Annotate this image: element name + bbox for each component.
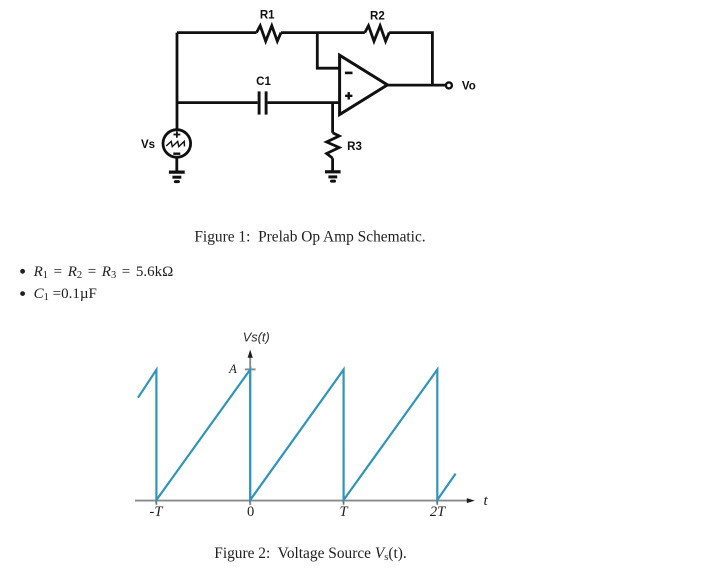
svg-text:R1: R1 xyxy=(260,10,275,22)
tick T xyxy=(343,497,345,505)
tick 2T xyxy=(436,497,438,505)
tick -T xyxy=(155,497,157,505)
terminal Vo xyxy=(446,82,452,88)
svg-text:2T: 2T xyxy=(430,504,446,520)
op-amp U1 xyxy=(340,55,388,114)
source Vs minus mark xyxy=(173,152,180,154)
svg-text:T: T xyxy=(339,504,348,520)
wire C1 net right segment to non-inverting input xyxy=(268,101,340,104)
svg-text:Vs: Vs xyxy=(141,139,155,151)
axis vertical arrowhead xyxy=(248,350,253,358)
wire left vertical from top net down to Vs xyxy=(176,33,179,130)
wire op-amp output to Vo terminal xyxy=(387,84,445,87)
capacitor C1 xyxy=(259,91,266,114)
wire R3 to ground xyxy=(331,158,334,171)
svg-text:-T: -T xyxy=(150,504,164,520)
tick A on vertical axis xyxy=(245,368,256,370)
axis horizontal arrowhead xyxy=(467,498,475,503)
svg-text:Figure 1: Prelab Op Amp Schem: Figure 1: Prelab Op Amp Schematic. xyxy=(194,229,425,246)
wire non-inverting node down to R3 xyxy=(331,103,334,133)
wire top horizontal net from Vs/R1 node to R2 and output branch xyxy=(177,31,257,34)
source Vs sawtooth mark xyxy=(166,141,184,146)
wire from R2 to right corner and down to output xyxy=(389,33,432,86)
resistor R2 xyxy=(365,26,389,42)
ground at Vs xyxy=(169,172,185,182)
svg-text:0: 0 xyxy=(247,504,254,520)
op-amp minus pin mark xyxy=(345,72,353,75)
svg-text:R2: R2 xyxy=(370,10,385,22)
svg-text:Vs(t): Vs(t) xyxy=(243,329,270,344)
svg-text:Vo: Vo xyxy=(462,81,476,93)
svg-text:C1 =0.1µF: C1 =0.1µF xyxy=(34,286,97,303)
resistor R1 xyxy=(257,26,282,42)
wire Vs to ground xyxy=(175,157,178,171)
resistor R3 xyxy=(327,133,340,158)
svg-text:C1: C1 xyxy=(256,76,271,88)
wire between R1 and R2 xyxy=(281,31,365,34)
axis horizontal t xyxy=(135,500,469,502)
svg-text:R3: R3 xyxy=(347,141,362,153)
bullet item 2 marker xyxy=(20,291,25,296)
sawtooth waveform Vs(t) xyxy=(138,370,456,500)
svg-text:t: t xyxy=(484,493,489,509)
svg-text:R1 = R2 = R3 = 5.6kΩ: R1 = R2 = R3 = 5.6kΩ xyxy=(33,264,174,281)
node junction R1-R2 to inverting input xyxy=(317,33,339,69)
source Vs plus mark xyxy=(174,131,181,137)
axis vertical Vs(t) xyxy=(249,357,251,506)
wire C1 net left segment xyxy=(177,101,258,104)
svg-text:Figure 2: Voltage Source Vs(t: Figure 2: Voltage Source Vs(t). xyxy=(214,545,406,563)
op-amp plus pin mark xyxy=(345,92,352,99)
source Vs xyxy=(163,130,191,158)
ground at R3 xyxy=(325,172,341,181)
svg-text:A: A xyxy=(228,362,237,376)
bullet item 1 marker xyxy=(20,269,25,274)
